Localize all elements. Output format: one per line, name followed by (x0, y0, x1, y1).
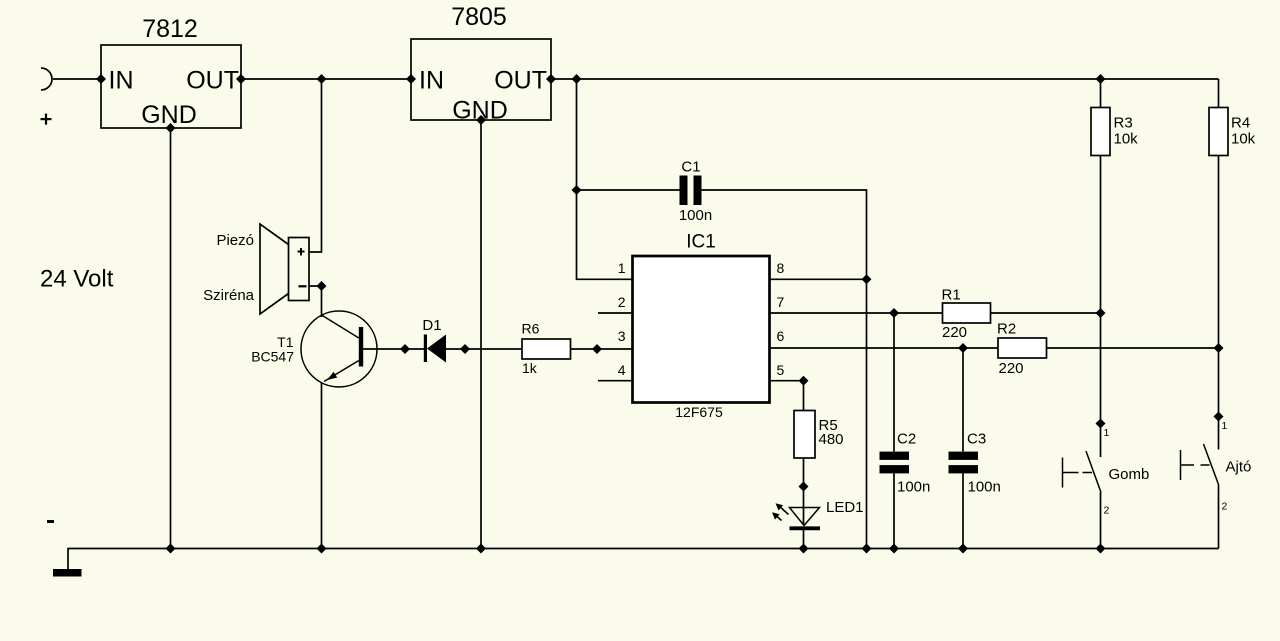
svg-text:LED1: LED1 (826, 499, 864, 516)
svg-text:24 Volt: 24 Volt (40, 266, 114, 293)
svg-text:1k: 1k (522, 360, 538, 376)
svg-text:IN: IN (419, 67, 444, 95)
svg-text:Gomb: Gomb (1109, 466, 1150, 483)
svg-text:GND: GND (141, 101, 197, 129)
svg-text:3: 3 (618, 328, 626, 344)
svg-text:R1: R1 (942, 287, 961, 304)
svg-text:100n: 100n (679, 207, 712, 224)
svg-text:6: 6 (777, 328, 785, 344)
svg-text:1: 1 (1222, 420, 1228, 432)
svg-text:IN: IN (109, 67, 134, 95)
svg-text:5: 5 (777, 362, 785, 378)
svg-text:12F675: 12F675 (675, 404, 723, 420)
svg-text:2: 2 (1104, 505, 1110, 517)
svg-text:IC1: IC1 (686, 232, 716, 253)
svg-text:OUT: OUT (494, 67, 547, 95)
svg-text:R6: R6 (522, 321, 540, 337)
svg-text:2: 2 (1222, 501, 1228, 513)
svg-text:R2: R2 (997, 321, 1016, 338)
svg-text:7: 7 (777, 294, 785, 310)
svg-text:10k: 10k (1114, 131, 1139, 148)
svg-text:10k: 10k (1231, 131, 1256, 148)
svg-text:C2: C2 (897, 431, 916, 448)
svg-text:C1: C1 (681, 159, 700, 176)
svg-text:100n: 100n (968, 479, 1001, 496)
svg-text:480: 480 (819, 431, 844, 448)
svg-text:GND: GND (452, 97, 508, 125)
svg-text:100n: 100n (897, 479, 930, 496)
svg-text:Ajtó: Ajtó (1226, 459, 1252, 476)
svg-text:R4: R4 (1231, 115, 1250, 132)
svg-text:7812: 7812 (142, 15, 198, 43)
svg-text:4: 4 (618, 362, 626, 378)
svg-text:8: 8 (777, 260, 785, 276)
svg-text:Piezó: Piezó (216, 232, 254, 249)
svg-text:7805: 7805 (451, 3, 507, 31)
svg-text:R3: R3 (1114, 115, 1133, 132)
svg-text:OUT: OUT (186, 67, 239, 95)
svg-text:1: 1 (618, 260, 626, 276)
svg-text:220: 220 (999, 360, 1024, 377)
svg-text:Sziréna: Sziréna (203, 287, 255, 304)
svg-text:220: 220 (942, 324, 967, 341)
svg-text:2: 2 (618, 294, 626, 310)
svg-text:D1: D1 (422, 317, 441, 334)
svg-text:C3: C3 (967, 431, 986, 448)
svg-text:BC547: BC547 (251, 349, 294, 365)
svg-text:1: 1 (1104, 427, 1110, 439)
